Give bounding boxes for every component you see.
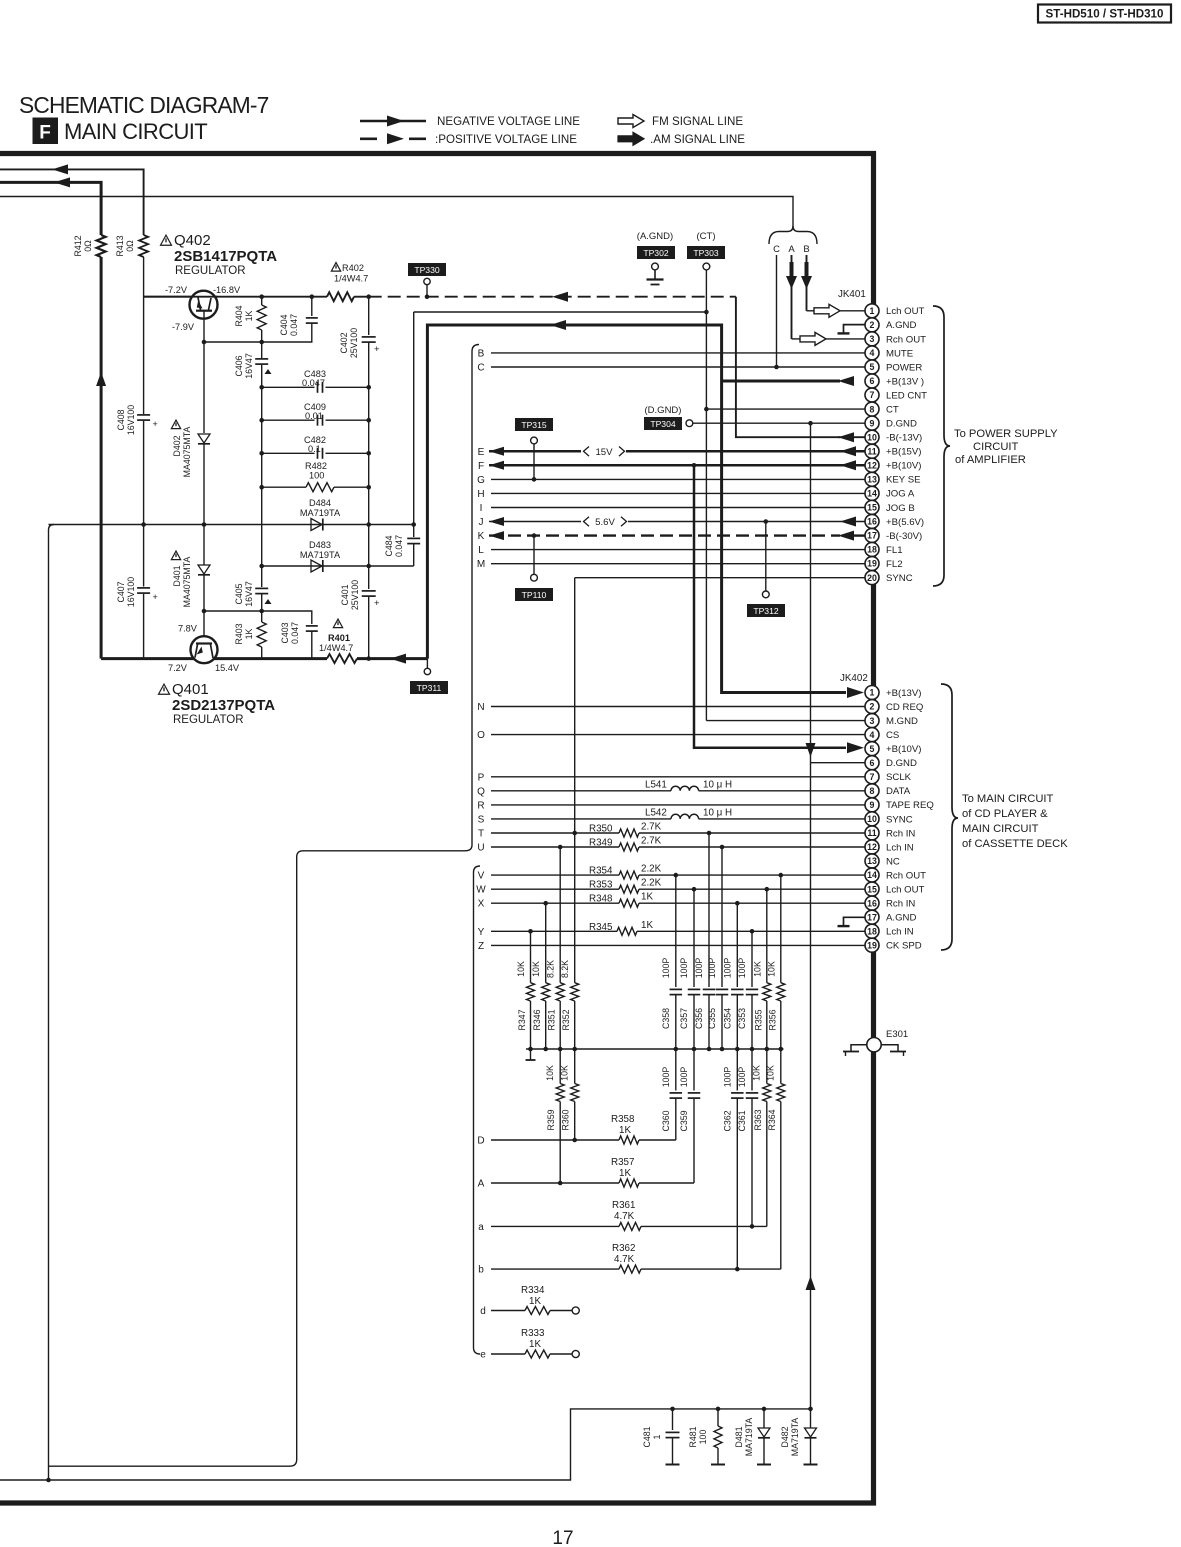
svg-text:Y: Y	[478, 927, 485, 938]
wire A vertical with AM arrow	[791, 255, 793, 339]
svg-text:R353: R353	[589, 880, 613, 891]
label R401	[333, 619, 342, 628]
capacitor C354	[736, 903, 738, 987]
wire array ground rail	[526, 1048, 784, 1050]
svg-text:0Ω: 0Ω	[83, 240, 93, 252]
svg-text:C407: C407	[116, 581, 126, 602]
brace C A B bundle	[769, 226, 817, 244]
svg-text:+B(13V ): +B(13V )	[886, 376, 924, 387]
test point TP330	[408, 263, 446, 276]
svg-text:C354: C354	[723, 1008, 733, 1029]
svg-text:12: 12	[867, 842, 877, 852]
svg-text:MA719TA: MA719TA	[300, 550, 341, 560]
svg-text:10 μ H: 10 μ H	[703, 808, 732, 819]
svg-text:F: F	[478, 461, 484, 472]
svg-text:R401: R401	[328, 633, 350, 643]
svg-text:b: b	[478, 1265, 484, 1276]
svg-text:MA4075MTA: MA4075MTA	[182, 557, 192, 608]
svg-text:R364: R364	[767, 1109, 777, 1130]
svg-text:D484: D484	[309, 498, 331, 508]
svg-text:NC: NC	[886, 856, 900, 867]
svg-text:D482: D482	[780, 1426, 790, 1447]
svg-text:C356: C356	[694, 1008, 704, 1029]
svg-text:I: I	[480, 503, 483, 514]
svg-text:Q401: Q401	[172, 681, 209, 698]
svg-text:DATA: DATA	[886, 786, 911, 797]
wire M.GND row to JK402 pin3	[706, 720, 865, 722]
capacitor C408	[137, 414, 150, 416]
brace JK401	[933, 306, 950, 586]
pin 9 D.GND	[865, 416, 879, 430]
svg-text:D.GND: D.GND	[886, 419, 917, 430]
svg-text:REGULATOR: REGULATOR	[175, 265, 246, 277]
capacitor C407	[137, 587, 150, 589]
svg-text:10: 10	[867, 814, 877, 824]
svg-text:R350: R350	[589, 824, 613, 835]
svg-text:SYNC: SYNC	[886, 573, 913, 584]
svg-text:18: 18	[867, 926, 877, 936]
svg-text:R349: R349	[589, 838, 612, 849]
svg-text:R403: R403	[234, 623, 244, 644]
svg-text:25V100: 25V100	[350, 580, 360, 610]
diode D483	[311, 560, 322, 572]
arrow into pin11	[840, 446, 856, 456]
svg-text:E: E	[478, 447, 485, 458]
svg-text:5: 5	[870, 744, 875, 754]
svg-text:-16.8V: -16.8V	[213, 285, 241, 295]
svg-text:TP303: TP303	[693, 248, 719, 258]
pin 4 MUTE	[865, 346, 879, 360]
test point TP311	[426, 659, 428, 669]
svg-text:12: 12	[867, 460, 877, 470]
test point TP302	[637, 246, 675, 259]
svg-text:M.GND: M.GND	[886, 716, 918, 727]
svg-text:2.2K: 2.2K	[641, 878, 662, 889]
wire +B13V thick loop	[427, 325, 846, 693]
svg-text:TAPE REQ: TAPE REQ	[886, 800, 934, 811]
svg-text:1/4W4.7: 1/4W4.7	[334, 274, 368, 284]
svg-text:100P: 100P	[661, 1067, 671, 1088]
svg-text:100P: 100P	[723, 1067, 733, 1088]
pin 17 -B(-30V)	[865, 528, 879, 542]
pin 18 FL1	[865, 542, 879, 556]
capacitor C356	[708, 833, 710, 987]
svg-text:7.8V: 7.8V	[178, 624, 198, 634]
svg-text:REGULATOR: REGULATOR	[173, 714, 244, 726]
capacitor C482	[262, 452, 315, 454]
svg-text:CK SPD: CK SPD	[886, 941, 922, 952]
svg-text:1K: 1K	[244, 310, 254, 321]
svg-text:C481: C481	[642, 1426, 652, 1447]
svg-text:TP330: TP330	[414, 265, 440, 275]
wire -B13V feed	[736, 297, 840, 438]
svg-text:2SD2137PQTA: 2SD2137PQTA	[172, 697, 275, 714]
svg-text:B: B	[803, 244, 809, 255]
pin 11 +B(15V)	[865, 444, 879, 458]
pin 3 Rch OUT	[865, 332, 879, 346]
pin 20 SYNC	[865, 571, 879, 585]
wire rail to C402	[354, 296, 369, 298]
arrow on bottom row	[390, 654, 406, 664]
svg-text:R: R	[477, 800, 484, 811]
svg-text:10K: 10K	[560, 1065, 570, 1081]
svg-text:+: +	[153, 419, 158, 429]
svg-text:JOG B: JOG B	[886, 503, 915, 514]
svg-text:ST-HD510 / ST-HD310: ST-HD510 / ST-HD310	[1046, 8, 1164, 21]
wire node line y312	[414, 311, 707, 313]
resistor R346	[545, 903, 547, 983]
svg-text:Z: Z	[478, 941, 484, 952]
svg-text:25V100: 25V100	[349, 328, 359, 358]
pin 12 Lch IN	[865, 840, 879, 854]
svg-text:+B(10V): +B(10V)	[886, 744, 921, 755]
svg-text:M: M	[477, 559, 485, 570]
capacitor C401	[368, 566, 370, 589]
svg-text:C406: C406	[234, 355, 244, 376]
svg-text:JK401: JK401	[838, 289, 866, 300]
svg-text:+B(5.6V): +B(5.6V)	[886, 517, 924, 528]
svg-text:7: 7	[870, 390, 875, 400]
svg-text:of CASSETTE DECK: of CASSETTE DECK	[962, 838, 1068, 850]
svg-text:C360: C360	[661, 1110, 671, 1131]
svg-text:(A.GND): (A.GND)	[637, 231, 673, 242]
svg-text:0.047: 0.047	[302, 378, 325, 388]
svg-text:100P: 100P	[679, 958, 689, 979]
svg-text:R333: R333	[521, 1328, 545, 1339]
svg-text:C408: C408	[116, 409, 126, 430]
svg-text:R358: R358	[611, 1114, 635, 1125]
resistor R404	[261, 297, 263, 305]
svg-text:a: a	[478, 1222, 484, 1233]
svg-text:D483: D483	[309, 540, 331, 550]
svg-text:-B(-13V): -B(-13V)	[886, 433, 922, 444]
svg-text:15V: 15V	[595, 447, 613, 458]
svg-text:13: 13	[867, 474, 877, 484]
svg-text:+B(15V): +B(15V)	[886, 447, 921, 458]
resistor R402	[327, 292, 354, 301]
svg-text:MUTE: MUTE	[886, 348, 913, 359]
arrow on top wire	[52, 164, 68, 174]
svg-text:FL1: FL1	[886, 545, 903, 556]
svg-text:2SB1417PQTA: 2SB1417PQTA	[174, 248, 277, 265]
arrow up on R412 line	[96, 372, 106, 386]
diode D401	[198, 565, 210, 574]
svg-text:L: L	[478, 545, 484, 556]
capacitor C358	[675, 875, 677, 987]
capacitor C481	[672, 1409, 674, 1430]
svg-text:11: 11	[867, 828, 876, 838]
section label F box	[33, 118, 59, 145]
pin 13 KEY SE	[865, 472, 879, 486]
svg-text:10K: 10K	[766, 961, 776, 977]
arrow on +B13V top	[550, 320, 566, 330]
wire D484 row	[49, 524, 414, 526]
svg-text:CT: CT	[886, 404, 899, 415]
pin 19 FL2	[865, 557, 879, 571]
svg-text:16V100: 16V100	[126, 405, 136, 435]
wire regulator bottom row (thick)	[101, 657, 327, 660]
svg-text:18: 18	[867, 545, 877, 555]
wire D483 row	[262, 565, 414, 567]
svg-text:C: C	[773, 244, 780, 255]
svg-text:10 μ H: 10 μ H	[703, 780, 732, 791]
svg-text:(CT): (CT)	[697, 231, 716, 242]
pin 6 D.GND	[865, 756, 879, 770]
capacitor C403	[204, 611, 312, 624]
pin 1 +B(13V)	[865, 686, 879, 700]
svg-text:SYNC: SYNC	[886, 814, 913, 825]
svg-text:C358: C358	[661, 1008, 671, 1029]
label Q401	[158, 684, 169, 694]
resistor R352	[574, 578, 576, 983]
wire positive dashed rail	[369, 296, 736, 298]
arrow into pin17	[838, 531, 854, 541]
arrow into pin16	[840, 517, 856, 527]
ground left of E301	[851, 1045, 867, 1052]
svg-text:TP302: TP302	[643, 248, 669, 258]
svg-text:e: e	[480, 1350, 486, 1361]
pin 15 Lch OUT	[865, 882, 879, 896]
pin 1 Lch OUT	[865, 304, 879, 318]
svg-text:16: 16	[867, 898, 877, 908]
svg-text:100P: 100P	[737, 958, 747, 979]
svg-text:Q: Q	[477, 786, 485, 797]
model number box ST-HD510 / ST-HD310	[1038, 5, 1171, 23]
svg-text:2.2K: 2.2K	[641, 864, 662, 875]
pin 7 SCLK	[865, 770, 879, 784]
svg-text:R352: R352	[561, 1009, 571, 1030]
svg-text:R362: R362	[612, 1243, 635, 1254]
brace JK402	[941, 684, 958, 950]
capacitor C483	[262, 386, 315, 388]
capacitor C484	[413, 312, 415, 537]
svg-text:J: J	[479, 517, 484, 528]
svg-text:O: O	[477, 730, 485, 741]
svg-text:MA4075MTA: MA4075MTA	[182, 427, 192, 478]
svg-text:C403: C403	[280, 622, 290, 643]
test point TP304	[644, 417, 682, 430]
svg-text:3: 3	[870, 716, 875, 726]
test point TP315	[515, 418, 553, 431]
svg-text:of CD PLAYER &: of CD PLAYER &	[962, 808, 1048, 820]
svg-text:14: 14	[867, 489, 877, 499]
resistor R364	[780, 1049, 782, 1084]
FM arrow into Lch OUT	[807, 310, 815, 312]
svg-text:C401: C401	[340, 584, 350, 605]
svg-text:C353: C353	[737, 1008, 747, 1029]
pin 4 CS	[865, 728, 879, 742]
capacitor C361	[751, 1049, 753, 1091]
svg-text:Rch IN: Rch IN	[886, 899, 915, 910]
svg-text:1K: 1K	[529, 1339, 541, 1350]
svg-text:MA719TA: MA719TA	[790, 1418, 800, 1457]
resistor R355	[766, 889, 768, 983]
FM arrow into Rch OUT	[792, 338, 801, 340]
svg-text:1K: 1K	[619, 1168, 631, 1179]
svg-text:15: 15	[867, 503, 877, 513]
svg-text:MAIN CIRCUIT: MAIN CIRCUIT	[64, 119, 207, 144]
svg-text:-7.9V: -7.9V	[172, 322, 195, 332]
resistor R413	[139, 235, 148, 257]
capacitor C353	[751, 931, 753, 987]
svg-text:TP311: TP311	[417, 683, 442, 693]
svg-text:X: X	[478, 899, 485, 910]
svg-text:10: 10	[867, 432, 877, 442]
svg-text:9: 9	[870, 418, 875, 428]
pin 6 +B(13V )	[865, 374, 879, 388]
svg-text:10K: 10K	[752, 961, 762, 977]
svg-text:-B(-30V): -B(-30V)	[886, 531, 922, 542]
svg-text:1K: 1K	[529, 1296, 541, 1307]
pin 18 Lch IN	[865, 924, 879, 938]
capacitor C360	[675, 1049, 677, 1091]
wire negative supply top	[0, 169, 144, 235]
wire Q402 base column	[203, 311, 205, 433]
svg-text:4: 4	[870, 348, 875, 358]
wire +B13V branch to JK401 pin6	[722, 380, 840, 383]
bus bracket upper	[49, 345, 480, 1467]
label 5.6V	[584, 517, 590, 527]
legend FM signal line	[618, 115, 644, 128]
svg-text::POSITIVE VOLTAGE LINE: :POSITIVE VOLTAGE LINE	[435, 133, 577, 146]
svg-text:C: C	[477, 363, 484, 374]
diode D402	[198, 434, 210, 443]
svg-text:K: K	[478, 531, 485, 542]
svg-text:4.7K: 4.7K	[614, 1254, 635, 1265]
resistor R347	[530, 931, 532, 982]
svg-text:R412: R412	[73, 235, 83, 256]
svg-text:100: 100	[698, 1430, 708, 1445]
svg-text:100P: 100P	[707, 958, 717, 979]
svg-text:100P: 100P	[737, 1067, 747, 1088]
svg-text:C357: C357	[679, 1008, 689, 1029]
wire R413 column	[143, 257, 145, 414]
svg-text:6: 6	[870, 758, 875, 768]
label D401	[171, 551, 180, 560]
svg-text:L541: L541	[645, 780, 667, 791]
svg-text:+: +	[374, 598, 380, 609]
svg-text:Lch OUT: Lch OUT	[886, 306, 925, 317]
svg-text:0Ω: 0Ω	[125, 240, 135, 252]
svg-text:JK402: JK402	[840, 673, 868, 684]
svg-text:2.7K: 2.7K	[641, 822, 662, 833]
pin 5 +B(10V)	[865, 742, 879, 756]
svg-text:R481: R481	[688, 1426, 698, 1447]
svg-text:A.GND: A.GND	[886, 913, 916, 924]
wire R404 to C406	[261, 330, 263, 359]
svg-text:Rch OUT: Rch OUT	[886, 334, 926, 345]
pin 19 CK SPD	[865, 938, 879, 952]
svg-text:C359: C359	[679, 1110, 689, 1131]
svg-text:R355: R355	[753, 1009, 763, 1030]
arrow down on D.GND column	[806, 743, 816, 757]
arrow into JK402 pin1	[847, 687, 864, 698]
main circuit border frame	[0, 154, 874, 1504]
wire SYNC row to pin20	[575, 577, 866, 579]
wire D.GND column	[810, 423, 812, 1409]
svg-text:POWER: POWER	[886, 362, 922, 373]
svg-text:10K: 10K	[516, 961, 526, 977]
svg-text:F: F	[39, 123, 51, 144]
ground right of E301	[881, 1045, 898, 1052]
svg-text:2.7K: 2.7K	[641, 836, 662, 847]
svg-text:SCLK: SCLK	[886, 772, 912, 783]
svg-text:0.047: 0.047	[289, 314, 299, 336]
ground at JK401 pin2	[844, 325, 866, 334]
svg-text:TP110: TP110	[522, 590, 547, 600]
svg-text:To POWER SUPPLY: To POWER SUPPLY	[954, 428, 1058, 440]
arrow into pin10	[838, 432, 854, 442]
resistor R401	[327, 654, 357, 663]
svg-text:G: G	[477, 475, 485, 486]
svg-text:0.047: 0.047	[394, 535, 404, 557]
svg-text:MA719TA: MA719TA	[744, 1418, 754, 1457]
svg-text:R413: R413	[115, 235, 125, 256]
svg-text:0.1: 0.1	[308, 444, 321, 454]
svg-text:100: 100	[309, 471, 324, 481]
svg-text:19: 19	[867, 940, 877, 950]
wire CT row to pin8	[706, 408, 865, 410]
transistor Q402	[190, 291, 218, 319]
resistor R403	[259, 609, 264, 614]
resistor R412	[97, 235, 106, 257]
svg-text:U: U	[477, 843, 484, 854]
resistor R351	[559, 847, 561, 983]
svg-text:D401: D401	[172, 565, 182, 586]
svg-text:8: 8	[870, 786, 875, 796]
svg-text:7: 7	[870, 772, 875, 782]
svg-text:8: 8	[870, 404, 875, 414]
svg-text:R346: R346	[532, 1009, 542, 1030]
svg-text:15.4V: 15.4V	[215, 663, 240, 673]
pin 10 -B(-13V)	[865, 430, 879, 444]
capacitor C406	[255, 358, 268, 360]
svg-text:R347: R347	[517, 1009, 527, 1030]
svg-text:SCHEMATIC DIAGRAM-7: SCHEMATIC DIAGRAM-7	[19, 92, 269, 118]
svg-text:14: 14	[867, 870, 877, 880]
svg-text:D481: D481	[734, 1426, 744, 1447]
wire B vertical with AM arrow	[806, 255, 808, 311]
wire D.GND row to pin9	[693, 422, 866, 424]
diode D484	[311, 519, 322, 531]
svg-text:MAIN CIRCUIT: MAIN CIRCUIT	[962, 823, 1039, 835]
svg-text:D.GND: D.GND	[886, 758, 917, 769]
resistor R360	[574, 1049, 576, 1084]
capacitor C359	[693, 1049, 695, 1091]
svg-text:1: 1	[652, 1434, 662, 1439]
svg-text:R404: R404	[234, 305, 244, 326]
svg-text:A.GND: A.GND	[886, 320, 916, 331]
test point TP110	[533, 536, 535, 575]
svg-text:CS: CS	[886, 730, 899, 741]
wire horizontal full-width	[0, 197, 793, 228]
legend AM signal line	[618, 132, 644, 145]
svg-text:R348: R348	[589, 894, 613, 905]
svg-text:+B(13V): +B(13V)	[886, 688, 921, 699]
pin 15 JOG B	[865, 500, 879, 514]
pin 11 Rch IN	[865, 826, 879, 840]
svg-text:W: W	[476, 885, 486, 896]
svg-text:100P: 100P	[679, 1067, 689, 1088]
svg-text:R482: R482	[305, 461, 327, 471]
svg-text:11: 11	[867, 446, 876, 456]
arrow on second wire	[54, 177, 70, 187]
terminal E301	[867, 1038, 881, 1052]
svg-text:JOG A: JOG A	[886, 489, 915, 500]
pin 2 A.GND	[865, 318, 879, 332]
svg-text:R402: R402	[342, 263, 364, 273]
svg-text:100P: 100P	[661, 958, 671, 979]
